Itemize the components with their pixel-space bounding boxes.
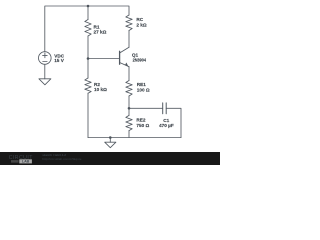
wire RC to collector xyxy=(128,31,130,48)
svg-text:100 Ω: 100 Ω xyxy=(137,87,150,92)
resistor RE1 xyxy=(126,81,132,97)
svg-text:2N3904: 2N3904 xyxy=(133,57,147,62)
wire VDC bottom xyxy=(44,64,46,79)
ground (below VDC) xyxy=(39,79,51,85)
resistor R2 xyxy=(85,78,91,93)
voltage source VDC xyxy=(39,52,52,65)
wire R2 top xyxy=(87,59,89,79)
svg-text:2 kΩ: 2 kΩ xyxy=(136,22,147,27)
logo CircuitLab xyxy=(9,155,34,164)
wire ground stub xyxy=(109,138,111,143)
resistor RC xyxy=(126,15,132,31)
wire C1 right xyxy=(166,108,181,137)
svg-text:RE2: RE2 xyxy=(136,118,146,123)
resistor R1 xyxy=(85,20,91,37)
node junction dots xyxy=(87,5,131,139)
wire emitter xyxy=(128,67,130,81)
svg-text:750 Ω: 750 Ω xyxy=(136,123,149,128)
svg-text:27 kΩ: 27 kΩ xyxy=(94,30,107,35)
wire RE1 bottom xyxy=(128,96,130,108)
svg-text:470 µF: 470 µF xyxy=(159,123,174,128)
wire RE2 top xyxy=(128,108,130,115)
wire C1 left xyxy=(129,107,163,109)
svg-text:15 V: 15 V xyxy=(54,58,65,63)
wire base row xyxy=(88,58,119,60)
wire top rail xyxy=(45,6,129,52)
capacitor C1 xyxy=(163,103,167,114)
wire bottom rail xyxy=(88,137,181,139)
watermark bar xyxy=(0,152,220,165)
svg-text:10 kΩ: 10 kΩ xyxy=(94,87,107,92)
labels xyxy=(54,17,174,128)
wire R1 bottom xyxy=(87,36,89,59)
ground (bottom rail) xyxy=(105,142,116,148)
wire R1 top xyxy=(87,6,89,20)
resistor RE2 xyxy=(126,115,132,130)
wire R2 bottom xyxy=(87,93,89,137)
svg-text:http://circuitlab.com/c/9kqvre: http://circuitlab.com/c/9kqvre xyxy=(42,157,81,161)
transistor Q1 xyxy=(120,47,129,66)
svg-text:LAB: LAB xyxy=(22,160,30,164)
wire RE2 bottom xyxy=(128,131,130,138)
